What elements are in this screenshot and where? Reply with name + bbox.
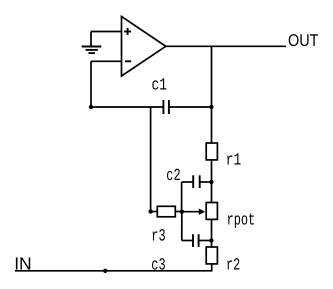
op-amp U1 xyxy=(122,17,166,77)
capacitor C2 xyxy=(182,175,212,211)
wire output xyxy=(166,45,286,47)
label OUT xyxy=(14,31,318,275)
op-amp plus input marker xyxy=(124,28,131,35)
rpot wiper arrow xyxy=(182,209,205,215)
svg-text:IN: IN xyxy=(14,253,32,273)
node IN junction dot xyxy=(103,269,107,273)
node c2 right junction dot xyxy=(209,180,213,184)
op-amp minus input marker xyxy=(125,60,131,62)
wire IN line xyxy=(15,270,213,272)
node c1 output junction dot xyxy=(209,105,213,109)
resistor R1 xyxy=(206,143,217,160)
ground xyxy=(82,32,102,54)
node r3 left junction dot xyxy=(148,209,152,213)
wire c1 left xyxy=(91,106,163,108)
wire r3 to wiper node xyxy=(175,211,182,213)
wire c1 tap vertical xyxy=(150,107,152,212)
capacitor C1 xyxy=(163,100,169,114)
wire inverting node vertical xyxy=(90,61,92,107)
svg-text:r3: r3 xyxy=(151,228,165,247)
resistor R3 xyxy=(157,206,175,217)
wire c1 right xyxy=(169,106,212,108)
potentiometer RPOT xyxy=(206,203,217,220)
svg-text:c3: c3 xyxy=(151,256,165,275)
node inverting junction dot xyxy=(89,105,93,109)
svg-text:OUT: OUT xyxy=(288,31,319,50)
wire feedback branch vertical xyxy=(211,46,213,143)
resistor R2 xyxy=(206,247,217,264)
wire rpot to r2 xyxy=(211,219,213,247)
svg-text:c2: c2 xyxy=(166,167,180,186)
node wiper junction dot xyxy=(180,210,184,214)
wire noninverting input xyxy=(91,31,122,33)
wire to r3 xyxy=(151,211,157,213)
node c3 right junction dot xyxy=(209,238,213,242)
wire r2 to input line xyxy=(211,264,213,271)
svg-text:r1: r1 xyxy=(226,152,242,171)
wire inverting input xyxy=(91,60,122,62)
capacitor C3 xyxy=(182,212,212,247)
svg-text:r2: r2 xyxy=(226,256,240,275)
wire r1 to rpot xyxy=(211,160,213,203)
svg-text:c1: c1 xyxy=(152,77,168,96)
svg-text:rpot: rpot xyxy=(227,212,256,231)
